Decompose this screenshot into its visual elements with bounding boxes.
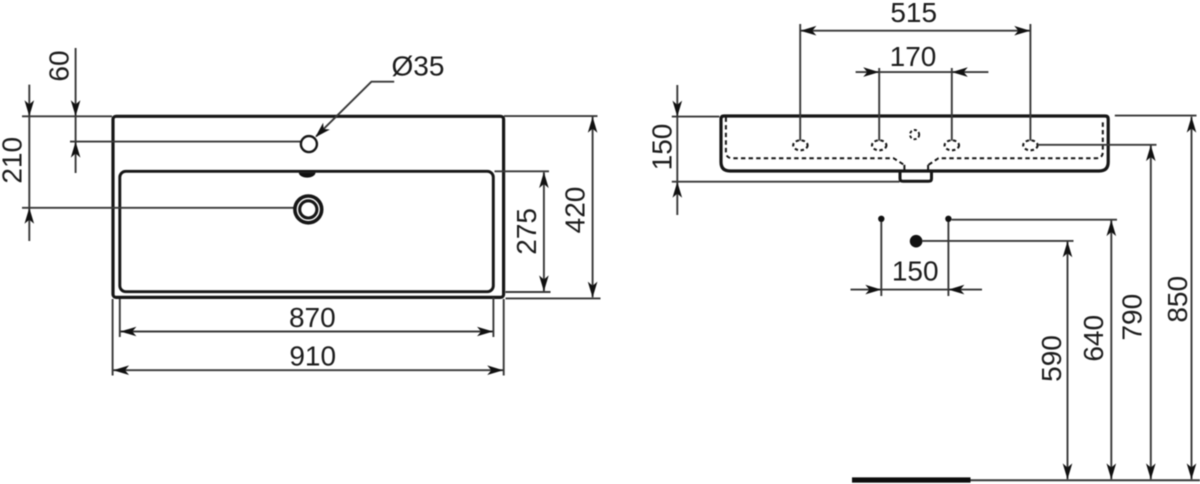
extension below outer-left corner xyxy=(112,299,114,376)
dimension line 275 xyxy=(543,172,545,291)
svg-text:910: 910 xyxy=(289,341,336,372)
svg-text:790: 790 xyxy=(1117,294,1148,341)
inner-top right extension xyxy=(495,170,550,172)
faucet hole xyxy=(301,136,317,152)
drain inner ring xyxy=(300,201,317,218)
extension down from fixing dot left xyxy=(880,222,882,296)
dimension line 850 xyxy=(1191,117,1193,479)
extension up from hole 1 xyxy=(799,24,801,141)
extension down from fixing dot right xyxy=(947,222,949,296)
extension right from supply dot xyxy=(923,240,1074,242)
basin body xyxy=(721,116,1108,171)
extension up from hole 3 xyxy=(951,68,953,141)
floor line thin xyxy=(971,479,1200,481)
extension below inner-left corner xyxy=(119,299,121,337)
extension line top-right xyxy=(504,115,598,117)
extension line top-left xyxy=(22,115,112,117)
overflow hole xyxy=(910,130,919,139)
tap hole 3 xyxy=(945,140,959,150)
extension below outer-right corner xyxy=(503,299,505,376)
dimension line 790 xyxy=(1150,145,1152,479)
outer-bottom right extension xyxy=(506,297,601,299)
drain outer ring xyxy=(295,196,322,223)
extension below inner-right corner xyxy=(492,298,494,338)
svg-text:210: 210 xyxy=(0,137,28,184)
floor line thick xyxy=(852,477,971,482)
dimension line 170 xyxy=(856,71,989,73)
svg-text:150: 150 xyxy=(892,256,939,287)
extension line under basin to trap xyxy=(672,181,900,183)
dimension line 590 xyxy=(1067,242,1069,480)
svg-text:850: 850 xyxy=(1162,276,1193,323)
svg-text:870: 870 xyxy=(289,302,336,333)
drain centerline xyxy=(22,207,295,209)
extension up from hole 4 xyxy=(1029,24,1031,141)
basin outer rectangle xyxy=(113,116,504,297)
dimension line 60 xyxy=(75,48,77,173)
drain throat wall right xyxy=(927,165,929,172)
fixing dot right xyxy=(945,216,951,222)
extension up from hole 2 xyxy=(878,68,880,141)
tap hole 4 xyxy=(1023,140,1037,150)
dimension line 150 left xyxy=(676,85,678,215)
fixing dot left xyxy=(878,216,884,222)
dimension line 870 xyxy=(120,331,493,333)
faucet hole centerline xyxy=(70,141,302,143)
overflow notch xyxy=(299,173,316,178)
basin inner bowl rectangle xyxy=(120,171,494,291)
dimension line 640 xyxy=(1110,220,1112,479)
svg-text:640: 640 xyxy=(1078,315,1109,362)
leader line for faucet hole diameter xyxy=(316,82,394,137)
inner-bottom right extension xyxy=(506,291,551,293)
dimension line 150 bottom xyxy=(851,289,983,291)
extension right from fixing dot right xyxy=(952,219,1117,221)
svg-text:515: 515 xyxy=(890,0,937,28)
extension right from hole 4 xyxy=(1038,144,1157,146)
tap hole 1 xyxy=(793,140,807,150)
extension right from body top xyxy=(1115,115,1197,117)
svg-text:60: 60 xyxy=(44,50,75,81)
hidden rim line left xyxy=(726,118,904,165)
dimension line 515 xyxy=(800,30,1030,32)
dimension line 420 xyxy=(592,117,594,297)
dimension line 910 xyxy=(113,369,504,371)
drain trap box xyxy=(900,171,932,182)
hidden rim line right xyxy=(929,120,1103,165)
supply dot large xyxy=(910,235,923,248)
svg-text:170: 170 xyxy=(890,41,937,72)
drain throat wall left xyxy=(903,165,905,172)
svg-text:150: 150 xyxy=(647,124,678,171)
svg-text:275: 275 xyxy=(511,208,542,255)
svg-text:420: 420 xyxy=(560,187,591,234)
dimension line 210 xyxy=(28,85,30,241)
extension line top-left of body xyxy=(672,116,720,118)
svg-text:Ø35: Ø35 xyxy=(392,51,445,82)
tap hole 2 xyxy=(872,140,886,150)
svg-text:590: 590 xyxy=(1036,335,1067,382)
